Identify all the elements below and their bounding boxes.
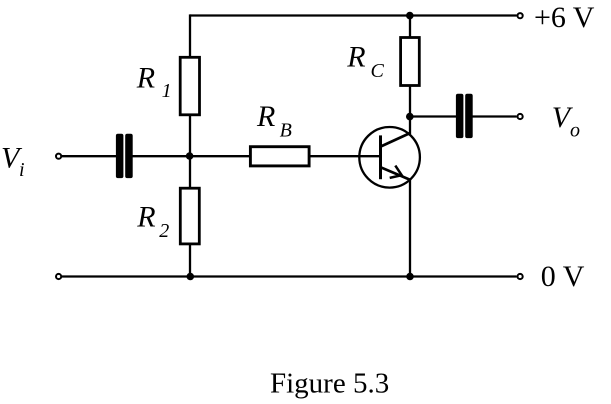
wire: emitter vertical to ground rail <box>409 180 411 277</box>
transistor Q1 emitter arrowhead <box>390 166 402 178</box>
wire: R2 bottom lead <box>189 244 191 277</box>
wire: R2 top lead <box>189 156 191 188</box>
svg-text:1: 1 <box>162 80 172 102</box>
Vi input terminal <box>56 154 61 159</box>
transistor Q1 emitter stroke <box>381 167 411 180</box>
transistor Q1 base bar <box>379 135 382 179</box>
wire: node to RB <box>190 155 251 157</box>
capacitor C-in plate 1 <box>116 134 124 178</box>
wire: +6V top rail <box>190 14 517 16</box>
wire: RC bottom lead <box>409 86 411 117</box>
svg-text:C: C <box>371 60 385 82</box>
resistor RB <box>250 147 309 166</box>
transistor Q1 collector stroke <box>381 133 411 147</box>
resistor R1 <box>180 57 199 115</box>
svg-text:o: o <box>570 119 580 141</box>
svg-text:i: i <box>19 159 25 181</box>
junction: RC at +6V rail <box>406 12 414 20</box>
svg-text:+6V: +6V <box>534 1 595 34</box>
capacitor C-in plate 2 <box>125 134 133 178</box>
resistor RC <box>401 38 420 86</box>
wire: input terminal to coupling capacitor <box>61 155 117 157</box>
svg-text:2: 2 <box>159 220 169 242</box>
svg-text:R: R <box>346 41 365 74</box>
wire: RB to transistor base <box>309 155 380 157</box>
svg-text:R: R <box>256 100 275 133</box>
junction: emitter at ground rail <box>406 273 414 281</box>
wire: RC top lead <box>409 16 411 38</box>
0V terminal <box>518 274 523 279</box>
junction: R2 at ground rail <box>187 273 195 281</box>
transistor Q1 body circle <box>359 127 420 188</box>
svg-text:B: B <box>280 119 292 141</box>
junction: R1/R2/RB node <box>186 152 194 160</box>
svg-text:R: R <box>136 61 155 94</box>
capacitor C-out plate 1 <box>456 94 464 138</box>
wire: output capacitor to Vo terminal <box>473 115 517 117</box>
svg-text:Figure 5.3: Figure 5.3 <box>270 367 389 399</box>
resistor R2 <box>180 188 199 244</box>
+6V terminal <box>518 13 523 18</box>
wire: R1 bottom lead <box>189 115 191 156</box>
wire: capacitor to base node <box>133 155 191 157</box>
wire: R1 top lead from rail corner <box>189 14 191 57</box>
ground-left terminal <box>56 274 61 279</box>
wire: collector node to output capacitor <box>410 115 457 117</box>
junction: collector node <box>406 113 414 121</box>
capacitor C-out plate 2 <box>465 94 473 138</box>
Vo output terminal <box>518 114 523 119</box>
wire: collector vertical to node <box>409 117 411 135</box>
svg-text:R: R <box>136 201 155 234</box>
svg-text:0V: 0V <box>541 260 585 293</box>
wire: 0V bottom rail <box>61 275 517 277</box>
